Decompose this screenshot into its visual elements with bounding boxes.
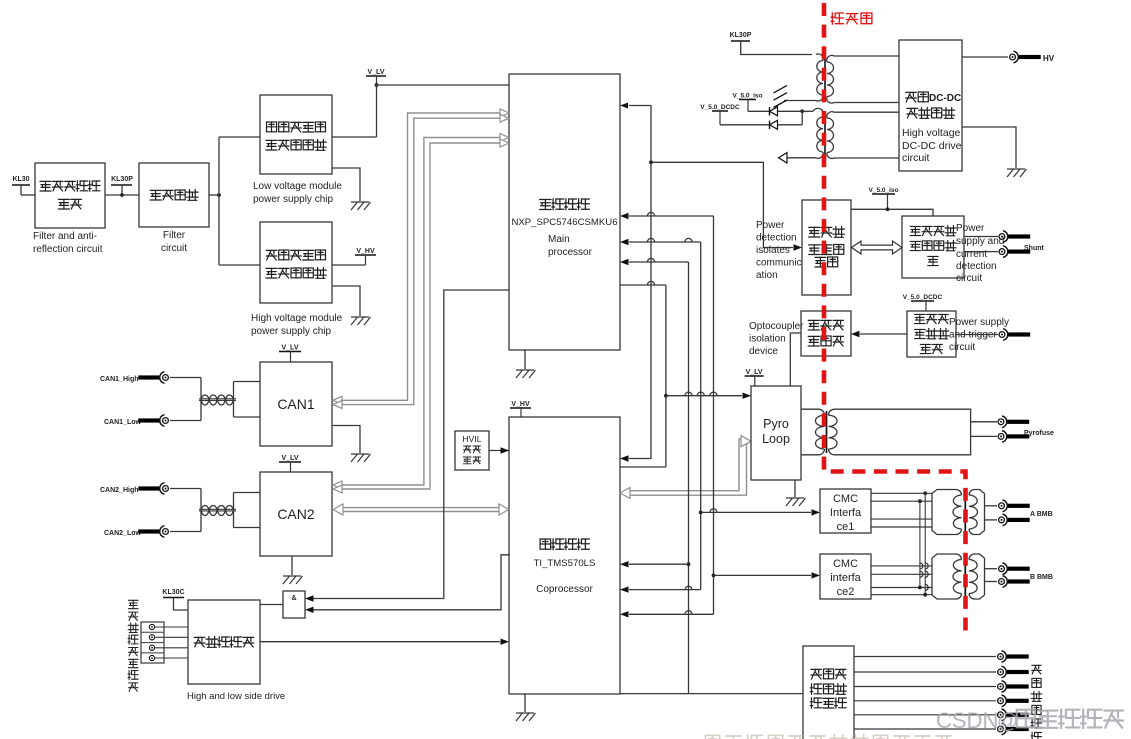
svg-text:V_5.0_iso: V_5.0_iso — [869, 187, 899, 194]
svg-text:A BMB: A BMB — [1030, 511, 1053, 518]
svg-text:DC-DC drive: DC-DC drive — [902, 140, 962, 152]
svg-text:current: current — [956, 249, 987, 260]
svg-text:V_5.0_DCDC: V_5.0_DCDC — [700, 104, 740, 111]
svg-text:Power supply: Power supply — [949, 317, 1009, 328]
svg-text:power supply chip: power supply chip — [251, 326, 331, 337]
svg-text:Filter and anti-: Filter and anti- — [33, 231, 97, 242]
svg-text:Low voltage module: Low voltage module — [253, 181, 342, 192]
svg-text:DC-DC: DC-DC — [929, 93, 961, 104]
svg-text:CMC: CMC — [833, 493, 858, 505]
svg-text:Power: Power — [956, 223, 985, 234]
svg-text:CMC: CMC — [833, 558, 858, 570]
svg-text:NXP_SPC5746CSMKU6: NXP_SPC5746CSMKU6 — [511, 217, 617, 228]
svg-text:circuit: circuit — [161, 243, 187, 254]
svg-text:circuit: circuit — [902, 152, 930, 164]
svg-text:High voltage: High voltage — [902, 127, 961, 139]
svg-text:ation: ation — [756, 270, 778, 281]
svg-text:V_HV: V_HV — [356, 248, 375, 255]
svg-text:supply and: supply and — [956, 236, 1004, 247]
svg-text:CAN1: CAN1 — [277, 396, 315, 412]
svg-text:CAN2: CAN2 — [277, 506, 315, 522]
svg-text:interfa: interfa — [830, 572, 861, 584]
svg-text:KL30P: KL30P — [730, 32, 752, 39]
svg-text:V_5.0_DCDC: V_5.0_DCDC — [903, 294, 943, 301]
svg-text:detection: detection — [956, 261, 997, 272]
svg-text:isolates: isolates — [756, 245, 790, 256]
svg-text:High voltage module: High voltage module — [251, 313, 343, 324]
svg-text:KL30C: KL30C — [162, 589, 184, 596]
svg-text:processor: processor — [548, 247, 593, 258]
svg-text:ce2: ce2 — [837, 586, 855, 598]
svg-text:V_5.0_iso: V_5.0_iso — [733, 92, 763, 99]
svg-text:circuit: circuit — [949, 342, 975, 353]
svg-text:CSDN: CSDN — [936, 708, 998, 733]
svg-text:CAN2_Low: CAN2_Low — [104, 530, 142, 537]
svg-text:&: & — [291, 595, 296, 602]
svg-text:CAN1_High: CAN1_High — [100, 376, 139, 383]
svg-text:Filter: Filter — [163, 230, 186, 241]
svg-text:Pyrofuse: Pyrofuse — [1024, 430, 1054, 437]
svg-text:Optocoupler: Optocoupler — [749, 321, 804, 332]
svg-text:Main: Main — [548, 234, 570, 245]
svg-text:Coprocessor: Coprocessor — [536, 584, 593, 595]
svg-text:V_LV: V_LV — [282, 455, 299, 462]
svg-text:device: device — [749, 346, 778, 357]
svg-text:CAN1_Low: CAN1_Low — [104, 419, 142, 426]
svg-text:Power: Power — [756, 220, 785, 231]
svg-text:KL30P: KL30P — [111, 176, 133, 183]
svg-text:Interfa: Interfa — [830, 507, 862, 519]
svg-text:reflection circuit: reflection circuit — [33, 244, 103, 255]
svg-text:V_LV: V_LV — [282, 344, 299, 351]
svg-text:V_LV: V_LV — [368, 69, 385, 76]
svg-text:B BMB: B BMB — [1030, 574, 1053, 581]
svg-text:Loop: Loop — [762, 432, 790, 446]
svg-text:V_HV: V_HV — [511, 401, 530, 408]
svg-text:circuit: circuit — [956, 273, 982, 284]
svg-text:HVIL: HVIL — [463, 434, 482, 444]
svg-text:detection: detection — [756, 233, 797, 244]
svg-text:power supply chip: power supply chip — [253, 194, 333, 205]
svg-text:TI_TMS570LS: TI_TMS570LS — [534, 558, 596, 569]
svg-text:HV: HV — [1043, 54, 1055, 63]
svg-text:Pyro: Pyro — [763, 417, 789, 431]
svg-text:Shunt: Shunt — [1024, 245, 1044, 252]
svg-text:isolation: isolation — [749, 334, 786, 345]
svg-text:@: @ — [997, 710, 1018, 733]
svg-text:V_LV: V_LV — [746, 369, 763, 376]
svg-text:communic: communic — [756, 258, 802, 269]
svg-text:KL30: KL30 — [12, 176, 29, 183]
svg-text:CAN2_High: CAN2_High — [100, 487, 139, 494]
svg-text:High and low side drive: High and low side drive — [187, 691, 285, 702]
svg-text:ce1: ce1 — [837, 521, 855, 533]
